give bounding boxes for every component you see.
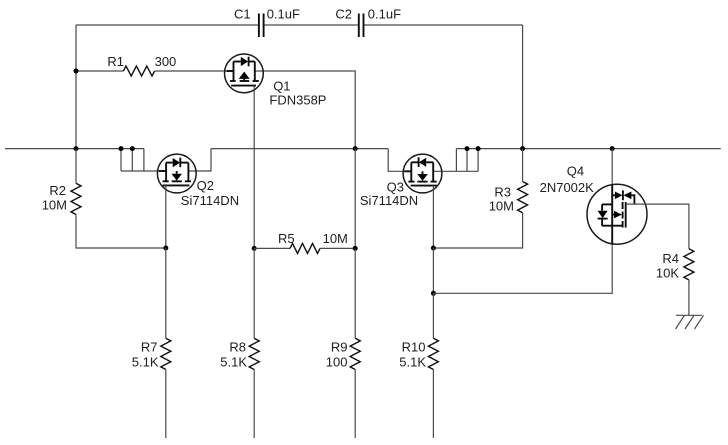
- wire R8 bottom lead to edge: [253, 370, 255, 439]
- wire R1 right lead to Q1 source: [155, 70, 234, 72]
- resistor R5: [290, 243, 320, 253]
- svg-text:R7: R7: [141, 340, 158, 355]
- svg-text:300: 300: [155, 54, 177, 69]
- resistor R1: [123, 66, 154, 76]
- wire top rail left segment: [76, 24, 259, 26]
- svg-text:R5: R5: [278, 231, 295, 246]
- svg-text:R4: R4: [662, 251, 679, 266]
- junction Q3 source pin 3: [476, 146, 481, 151]
- wire Q1 gate lead down to R5/R8 node: [253, 86, 255, 249]
- wire mid rail segment B (Q2/Q3 drain net): [211, 148, 388, 150]
- transistor Q4 (2N7002K N-channel MOSFET with gate protection): [587, 184, 647, 244]
- wire Q4 source run horizontal and up: [433, 244, 612, 293]
- wire Q2 gate lead down to R2/R7 node: [165, 185, 167, 248]
- junction mid rail left vertical: [74, 146, 79, 151]
- svg-text:100: 100: [326, 355, 348, 370]
- svg-text:R3: R3: [494, 185, 511, 200]
- wire Q4 gate lead to R4: [626, 204, 689, 249]
- junction Q2 source pin 1: [119, 146, 124, 151]
- transistor Q3 (Si7114DN N-channel MOSFET, mirrored): [403, 154, 442, 193]
- svg-text:5.1K: 5.1K: [220, 355, 247, 370]
- resistor R3: [518, 182, 528, 213]
- resistor R9: [350, 338, 360, 369]
- svg-text:Q1: Q1: [273, 79, 290, 94]
- wire Q4 drain lead from mid rail: [611, 149, 613, 185]
- resistor R8: [249, 338, 259, 369]
- wire R2 bottom lead and run to Q2 gate node: [76, 215, 166, 249]
- junction Q3 gate / R3 / R10: [431, 246, 436, 251]
- wire R5 right lead: [320, 247, 355, 249]
- wire Q2 source bus horizontal: [121, 170, 166, 172]
- svg-text:10M: 10M: [489, 199, 514, 214]
- wire mid rail segment A (Q2 source net): [5, 148, 144, 150]
- wire Q3 gate node down to Q4 source node: [432, 248, 434, 293]
- svg-text:10K: 10K: [656, 266, 679, 281]
- wire R3 bottom lead and run to Q3 gate node: [433, 213, 522, 248]
- wire R8 vertical upper: [253, 248, 255, 338]
- junction R1 left vertical: [74, 69, 79, 74]
- wire Q3 source pin stub 3: [477, 149, 479, 172]
- resistor R10: [428, 338, 438, 369]
- svg-text:Si7114DN: Si7114DN: [181, 193, 239, 208]
- svg-text:Q4: Q4: [567, 163, 584, 178]
- wire top rail right segment: [364, 24, 523, 26]
- wire Q3 gate lead down to R3/R10 node: [432, 186, 434, 248]
- svg-text:0.1uF: 0.1uF: [368, 7, 401, 22]
- junction R5 left / Q1 gate / R8: [252, 246, 257, 251]
- junction R5 right / R9: [353, 246, 358, 251]
- wire R4 bottom lead to ground: [688, 280, 690, 315]
- ground: [676, 315, 704, 329]
- svg-text:0.1uF: 0.1uF: [267, 7, 300, 22]
- svg-text:FDN358P: FDN358P: [269, 92, 326, 107]
- wire Q2 drain lead to mid rail: [188, 149, 211, 171]
- svg-text:10M: 10M: [42, 198, 67, 213]
- wire Q2 source pin stub 2: [131, 149, 133, 171]
- wire R3 top lead: [522, 149, 524, 182]
- svg-text:R9: R9: [331, 340, 348, 355]
- wire Q3 source pin stub 1 (rail corner): [455, 149, 457, 172]
- svg-text:R2: R2: [49, 183, 66, 198]
- wire R1 left lead: [76, 70, 123, 72]
- wire Q1 drain drop to mid rail: [255, 71, 355, 149]
- resistor R4: [684, 249, 694, 280]
- svg-text:2N7002K: 2N7002K: [540, 180, 595, 195]
- svg-text:R8: R8: [229, 340, 246, 355]
- wire left vertical from R1 node to mid rail: [75, 71, 77, 149]
- wire top rail between C1 and C2: [264, 24, 359, 26]
- svg-text:C2: C2: [335, 7, 352, 22]
- wire Q3 drain lead to mid rail: [388, 149, 411, 172]
- svg-text:5.1K: 5.1K: [132, 355, 159, 370]
- wire Q2 source pin stub 1: [120, 149, 122, 171]
- wire mid rail segment C (Q3 source net): [456, 148, 720, 150]
- capacitor C2: [359, 14, 364, 38]
- svg-text:R1: R1: [107, 54, 124, 69]
- wire Q3 source pin stub 2: [466, 149, 468, 172]
- svg-text:Q2: Q2: [197, 178, 214, 193]
- wire R7 bottom lead to edge: [165, 370, 167, 439]
- junction Q1 drain on mid rail: [353, 146, 358, 151]
- svg-text:5.1K: 5.1K: [399, 355, 426, 370]
- svg-text:Si7114DN: Si7114DN: [360, 193, 418, 208]
- svg-text:R10: R10: [402, 340, 426, 355]
- transistor Q1 (FDN358P P-channel MOSFET): [225, 54, 264, 93]
- wire R9 bottom lead to edge: [354, 370, 356, 439]
- wire R2 top lead: [75, 149, 77, 184]
- wire R10 vertical upper: [432, 293, 434, 338]
- wire Q3 source bus horizontal: [433, 170, 478, 172]
- wire right vertical drop from top rail to mid rail: [522, 25, 524, 149]
- wire R9 vertical from mid rail to R5 node: [354, 149, 356, 249]
- junction Q4 source run / R10: [431, 291, 436, 296]
- junction Q2 gate / R2 / R7: [163, 246, 168, 251]
- junction Q2 source pin 2: [130, 146, 135, 151]
- wire Q2 source pin stub 3 (rail corner): [143, 149, 145, 171]
- wire R10 bottom lead to edge: [432, 370, 434, 439]
- wire R7 vertical upper: [165, 248, 167, 338]
- junction C2/R3 on mid rail: [520, 146, 525, 151]
- resistor R2: [71, 183, 81, 214]
- svg-text:Q3: Q3: [387, 179, 404, 194]
- svg-text:C1: C1: [234, 7, 251, 22]
- transistor Q2 (Si7114DN N-channel MOSFET): [157, 154, 196, 193]
- wire left vertical drop from top rail to R1 node: [75, 25, 77, 71]
- svg-text:10M: 10M: [323, 231, 348, 246]
- junction Q4 on mid rail: [610, 146, 615, 151]
- wire R5 left lead: [254, 247, 290, 249]
- junction Q3 source pin 2: [465, 146, 470, 151]
- capacitor C1: [259, 14, 264, 38]
- resistor R7: [161, 338, 171, 369]
- wire R9 vertical upper: [354, 248, 356, 338]
